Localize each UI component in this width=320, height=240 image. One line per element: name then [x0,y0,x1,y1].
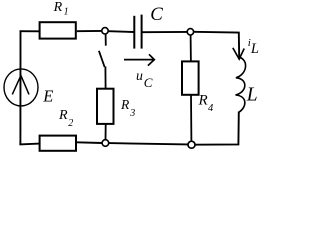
node A [187,29,193,35]
wire R1 to switch [77,30,102,32]
svg-text:R: R [53,0,63,15]
wire node A to top-right corner [194,32,239,58]
resistor R2 [40,136,76,151]
wire R4 to node B [190,95,192,141]
wire node B to node C [109,143,188,144]
wire R2 to bottom-left corner [19,143,39,146]
svg-text:L: L [250,41,259,57]
label R1 [53,0,69,18]
node C [102,140,109,147]
arrow i_L [233,48,244,59]
switch S contact circle [102,28,108,34]
voltage source E [4,69,38,106]
wire switch to capacitor [109,30,134,33]
capacitor C [134,15,141,49]
svg-text:u: u [136,68,143,83]
wire right rail bottom [195,112,239,145]
label R3 [120,97,135,119]
svg-text:R: R [120,97,130,112]
label u_C [136,68,153,90]
wire left rail [19,31,21,144]
label R2 [58,108,73,129]
svg-text:3: 3 [129,108,135,119]
node B [188,141,195,148]
inductor L [236,57,246,112]
wire node A to R4 [190,35,192,62]
arrow u_C [124,54,154,65]
wire capacitor to node A [143,31,189,33]
label i_L [248,37,259,57]
wire blade to R3 [104,67,106,90]
svg-text:R: R [198,92,208,108]
svg-text:C: C [144,75,153,90]
svg-text:4: 4 [208,103,214,114]
svg-text:1: 1 [64,7,69,18]
label R4 [198,92,215,114]
svg-text:2: 2 [68,118,73,129]
resistor R1 [40,22,76,38]
svg-text:E: E [42,87,53,106]
svg-text:L: L [246,84,258,105]
svg-text:R: R [58,108,68,123]
resistor R4 [182,61,199,94]
wire switch stub [105,34,107,45]
svg-text:C: C [150,4,163,25]
switch S blade [99,51,105,67]
wire top left [20,30,40,32]
wire R3 to node C [105,124,107,140]
wire node C to R2 [77,141,102,144]
resistor R3 [97,89,114,124]
